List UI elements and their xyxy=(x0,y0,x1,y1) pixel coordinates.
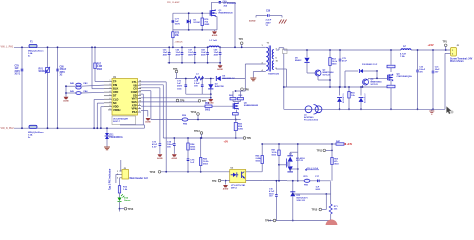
test point TP4 xyxy=(240,42,243,45)
svg-text:TP9: TP9 xyxy=(247,137,252,140)
svg-text:CLD: CLD xyxy=(113,97,118,101)
ground AGND C74 xyxy=(172,154,177,156)
svg-text:5: 5 xyxy=(110,94,111,96)
wire U1 left pin row to bottom rail 3 xyxy=(101,106,104,108)
svg-text:TP9: TP9 xyxy=(212,180,217,183)
wire top input rail xyxy=(14,46,209,48)
test point TP9 xyxy=(243,137,246,140)
capacitor C21 out xyxy=(432,50,434,71)
wire drain vertical to transformer xyxy=(234,2,236,47)
svg-text:AGND: AGND xyxy=(249,20,256,23)
test point TP5 xyxy=(175,70,178,73)
capacitor column C74 xyxy=(173,138,175,144)
wire bottom input rail xyxy=(14,127,144,129)
wire vertical RV1 branch xyxy=(47,47,49,128)
svg-text:16: 16 xyxy=(139,81,141,83)
wire header pin2 branch xyxy=(116,173,120,175)
wire CS lower row xyxy=(151,119,241,121)
capacitor C80 xyxy=(56,69,59,71)
wire secondary bottom rail xyxy=(284,108,445,110)
capacitor C76 column xyxy=(187,159,190,161)
wire drain node top xyxy=(236,90,246,92)
wire clamp bottom xyxy=(173,29,217,31)
svg-text:15: 15 xyxy=(139,84,141,86)
resistor R63 snub xyxy=(238,98,244,100)
IC U1 part number box xyxy=(112,116,136,125)
svg-text:8: 8 xyxy=(139,107,140,109)
wire D13 top link xyxy=(286,196,288,198)
ground AGND under U1 xyxy=(146,118,151,120)
svg-text:TP11: TP11 xyxy=(317,150,323,153)
wire opto pins xyxy=(261,170,263,172)
svg-text:8: 8 xyxy=(110,105,111,107)
svg-text:TP12: TP12 xyxy=(191,111,197,114)
wire aux cap return xyxy=(186,93,211,95)
svg-text:XFD: XFD xyxy=(113,90,118,94)
resistor R72 xyxy=(119,178,121,186)
resistor R60 sense xyxy=(234,123,237,131)
test point TP13 mid xyxy=(200,132,203,135)
resistor R51 zigzag aux xyxy=(195,77,204,80)
diode D10 xyxy=(345,70,358,72)
wire U1 row2 staircase xyxy=(141,84,163,86)
test point TP7 xyxy=(198,100,201,103)
wire vertical R57 branch xyxy=(94,47,96,63)
svg-text:13: 13 xyxy=(139,91,141,93)
wire U1 row TP monitors xyxy=(141,101,200,103)
svg-text:+5V @ 0.1A: +5V @ 0.1A xyxy=(306,167,318,170)
ground AGND vdd return xyxy=(210,97,212,100)
test point TP14 led xyxy=(124,207,127,210)
capacitor bulk C69 xyxy=(219,47,221,52)
svg-text:6: 6 xyxy=(110,98,111,100)
wire vertical C80 branch xyxy=(57,47,59,128)
capacitor C77 clamp xyxy=(172,20,174,23)
wire clamp left vertical xyxy=(172,13,174,47)
resistor R58 gate xyxy=(205,105,212,107)
svg-text:TP6: TP6 xyxy=(180,100,185,103)
svg-text:11: 11 xyxy=(139,97,141,99)
wire secondary output rail xyxy=(284,49,401,51)
red blob bottom xyxy=(326,220,338,232)
optocoupler U3 cm choke xyxy=(305,106,312,113)
wire T1 pin4 to shield earth xyxy=(253,71,265,73)
resistor R57 xyxy=(94,63,96,69)
resistor R62 snub xyxy=(230,98,236,100)
ground AGND clamp xyxy=(214,30,216,31)
svg-text:3: 3 xyxy=(110,87,111,89)
wire header pin1 top xyxy=(120,170,121,172)
earth ground below D11 xyxy=(104,147,110,150)
ferrite bead FB4 xyxy=(76,92,81,95)
net +5V output arrow xyxy=(305,169,319,171)
resistor R50 column xyxy=(200,138,202,158)
diode D5 aux rectifier xyxy=(217,76,221,81)
svg-text:0603: 0603 xyxy=(205,110,211,112)
svg-text:AGND: AGND xyxy=(208,102,214,105)
svg-text:TP: TP xyxy=(113,80,117,84)
fuse F1 xyxy=(29,44,37,47)
svg-text:VDDH: VDDH xyxy=(113,108,120,112)
wire feedback top rail xyxy=(262,143,336,145)
svg-text:BZX84C10: BZX84C10 xyxy=(365,94,367,103)
test point TP11 xyxy=(323,149,326,152)
zener D7 column xyxy=(360,87,362,96)
wire feedback row to opto xyxy=(160,171,230,173)
inductor L1 xyxy=(209,46,219,47)
wire vertical C79 branch xyxy=(21,47,23,128)
IC U1 controller yellow body xyxy=(112,79,138,116)
svg-text:TP1: TP1 xyxy=(443,40,448,43)
svg-text:14: 14 xyxy=(139,86,141,89)
varistor RV1 xyxy=(46,68,50,73)
wire bulk bus right drop to ground xyxy=(219,63,221,65)
wire 5v lower rail xyxy=(287,180,331,182)
svg-text:AGND: AGND xyxy=(63,99,69,102)
svg-text:4: 4 xyxy=(110,90,111,93)
zener D13 column xyxy=(292,181,294,192)
cursor arrow xyxy=(447,107,452,114)
capacitor bulk C65 xyxy=(168,47,170,52)
transistor Q5 primary switch xyxy=(233,103,234,109)
svg-text:AGND: AGND xyxy=(145,121,151,124)
svg-text:+24V: +24V xyxy=(428,43,434,47)
resistor R76 clamp xyxy=(201,13,203,30)
svg-text:+VBULK: +VBULK xyxy=(175,42,184,44)
wire U1 row5 wrap below xyxy=(141,93,143,95)
transistor Q3 xyxy=(363,79,369,85)
svg-text:VIN_L_PH1: VIN_L_PH1 xyxy=(1,46,14,49)
svg-text:BZX84C10: BZX84C10 xyxy=(343,94,345,103)
svg-text:AGND: AGND xyxy=(172,157,178,160)
wire U1 row3 staircase xyxy=(141,87,160,89)
resistor R47 to 24V xyxy=(336,143,344,145)
capacitor C16 column xyxy=(275,181,277,195)
test point TP10 xyxy=(158,171,161,174)
ground AGND bulk return xyxy=(218,65,223,67)
svg-text:9: 9 xyxy=(139,104,140,106)
resistor R71 zigzag xyxy=(329,204,332,214)
transistor Q1 startup MOSFET xyxy=(210,10,211,16)
svg-text:BLK: BLK xyxy=(113,87,118,91)
wire tl431 cathode to rail column xyxy=(289,152,291,156)
test point TP15 xyxy=(325,194,327,210)
wire U1 FB row to opto feedback xyxy=(141,81,166,83)
svg-text:TP8: TP8 xyxy=(244,88,249,91)
svg-text:10: 10 xyxy=(139,101,141,103)
test point TP9b xyxy=(218,179,221,182)
wire top drain run xyxy=(212,1,236,3)
resistor R66 xyxy=(261,156,263,164)
wire opto anode drop xyxy=(261,144,263,156)
wire ovp emitter row xyxy=(317,76,319,80)
svg-text:TP13: TP13 xyxy=(128,208,134,211)
transistor Q4 pass FET xyxy=(390,50,392,65)
resistor R65 column xyxy=(348,87,350,92)
ferrite bead FB2 on CS row xyxy=(182,118,188,121)
svg-text:DT: DT xyxy=(113,94,117,98)
wire protection mid row xyxy=(284,86,391,88)
capacitor C71 aux xyxy=(185,79,187,85)
diode D1 clamp xyxy=(188,13,190,30)
resistor R67 xyxy=(278,150,280,156)
transistor Q2 ovp xyxy=(315,70,321,76)
wire T1 pin7 out xyxy=(276,49,279,51)
svg-text:PSJ: PSJ xyxy=(132,110,137,114)
wire rail after L2 xyxy=(411,49,451,51)
svg-text:Main Header 1x3: Main Header 1x3 xyxy=(130,178,149,180)
svg-text:TP4: TP4 xyxy=(239,38,244,41)
wire U1 gate drive row xyxy=(141,105,233,107)
wire aux winding run xyxy=(175,78,195,80)
wire secondary return vertical xyxy=(283,54,285,88)
ground AGND bead column xyxy=(64,97,69,99)
svg-text:7: 7 xyxy=(139,111,140,113)
resistor R64 xyxy=(329,50,331,58)
earth ground Y-cap xyxy=(279,20,287,24)
svg-text:9: 9 xyxy=(110,109,111,111)
ferrite bead FB3 xyxy=(76,83,81,86)
ground GND secondary xyxy=(431,109,433,111)
capacitor C75 xyxy=(339,50,341,59)
wire clamp top xyxy=(173,12,217,14)
svg-text:Typ 1 PIC indicator: Typ 1 PIC indicator xyxy=(109,168,112,190)
TVS diode D11 xyxy=(106,128,108,133)
test point TP14b xyxy=(273,219,276,222)
test point TP12 xyxy=(197,113,200,116)
wire bulk bus lower xyxy=(168,62,221,64)
wire T1 pin3 to drain node xyxy=(245,63,262,65)
wire U1 left pin row to bottom rail 2 xyxy=(97,102,104,104)
wire U1 row4 staircase xyxy=(141,90,151,92)
wire R71 column xyxy=(330,181,332,204)
svg-text:7: 7 xyxy=(110,102,111,104)
wire J2 pin2 return xyxy=(445,52,451,54)
earth ground T1 shield xyxy=(250,78,256,81)
capacitor bulk C67 xyxy=(194,47,196,52)
fuse F2 xyxy=(29,125,37,128)
capacitor C78 on drain run xyxy=(219,2,221,4)
diode D2 vdd xyxy=(210,79,212,95)
LED D12 green xyxy=(119,193,121,198)
diode D9 ovp xyxy=(306,50,308,57)
svg-text:TP5: TP5 xyxy=(173,68,178,71)
svg-text:PRI_CLAMP: PRI_CLAMP xyxy=(167,1,180,4)
resistor R68 column xyxy=(331,144,333,158)
svg-text:AGND: AGND xyxy=(157,157,163,160)
svg-text:AGND: AGND xyxy=(223,188,229,191)
capacitor C72 aux xyxy=(201,79,203,85)
capacitor bulk C66 xyxy=(181,47,183,52)
wire sense return row xyxy=(163,137,241,139)
wire tl431 cathode column xyxy=(278,144,280,150)
svg-text:D10 B540C-13-F: D10 B540C-13-F xyxy=(362,63,378,66)
test point TP6 xyxy=(176,99,179,102)
wire tl431 ref link xyxy=(279,164,286,166)
resistor R75 on clamp vertical xyxy=(172,32,174,38)
wire U1 VDD row to aux rectifier xyxy=(141,97,211,99)
svg-text:TP15: TP15 xyxy=(312,209,318,212)
wire U1 CS row short xyxy=(141,110,148,112)
ground AGND C73 xyxy=(158,154,163,156)
svg-text:FIN: FIN xyxy=(113,83,117,87)
capacitor C20 out xyxy=(417,50,419,70)
svg-text:750871020: 750871020 xyxy=(268,74,280,76)
svg-text:TP14: TP14 xyxy=(265,220,271,223)
test point TP1 xyxy=(444,44,447,47)
svg-text:12: 12 xyxy=(139,94,141,96)
svg-text:TP10: TP10 xyxy=(150,171,156,174)
test point TP8 xyxy=(241,88,244,91)
capacitor C79 xyxy=(21,69,24,71)
capacitor C30 Y-cap xyxy=(256,15,267,17)
svg-text:AGND: AGND xyxy=(217,68,223,71)
wire fb lower rail xyxy=(262,180,287,182)
wire Q1 source down xyxy=(215,16,217,18)
capacitor C17 xyxy=(318,180,320,183)
svg-text:AGND: AGND xyxy=(212,34,218,37)
wire divider mid row xyxy=(293,193,331,195)
svg-text:1: 1 xyxy=(110,80,111,82)
zener D6 column xyxy=(339,87,341,96)
resistor R54 column xyxy=(187,138,189,143)
wire bead common column xyxy=(66,85,76,87)
wire source node xyxy=(234,115,236,120)
wire branch down to header xyxy=(120,160,122,171)
svg-text:VIN_N_PH2: VIN_N_PH2 xyxy=(1,127,15,130)
net flag box secondary xyxy=(283,49,288,54)
ferrite bead FB5 xyxy=(304,179,310,182)
resistor R61 source xyxy=(233,113,239,115)
svg-text:NC: NC xyxy=(113,101,117,105)
wire Q1 drain to top xyxy=(211,2,213,9)
svg-text:L1 1uH: L1 1uH xyxy=(210,40,218,42)
wire vertical from rail to U1 pin xyxy=(91,47,93,88)
svg-text:C30: C30 xyxy=(266,11,271,13)
svg-text:+24V: +24V xyxy=(347,143,353,146)
wire bottom fb rail xyxy=(268,220,331,222)
svg-text:+5V: +5V xyxy=(224,140,229,143)
svg-text:TP13: TP13 xyxy=(194,130,200,133)
wire T1 pin8 return xyxy=(276,68,287,70)
svg-text:2: 2 xyxy=(110,84,111,86)
capacitor bulk C68 xyxy=(207,47,209,52)
wire LED to TP13b xyxy=(119,202,121,209)
inductor L2 xyxy=(401,49,411,50)
wire U1 left pin row to bottom rail 1 xyxy=(94,99,104,101)
ground AGND opto xyxy=(225,181,227,185)
capacitor column C73 xyxy=(159,142,161,144)
net +24V feedback xyxy=(344,143,346,145)
svg-text:VDD: VDD xyxy=(113,104,119,108)
